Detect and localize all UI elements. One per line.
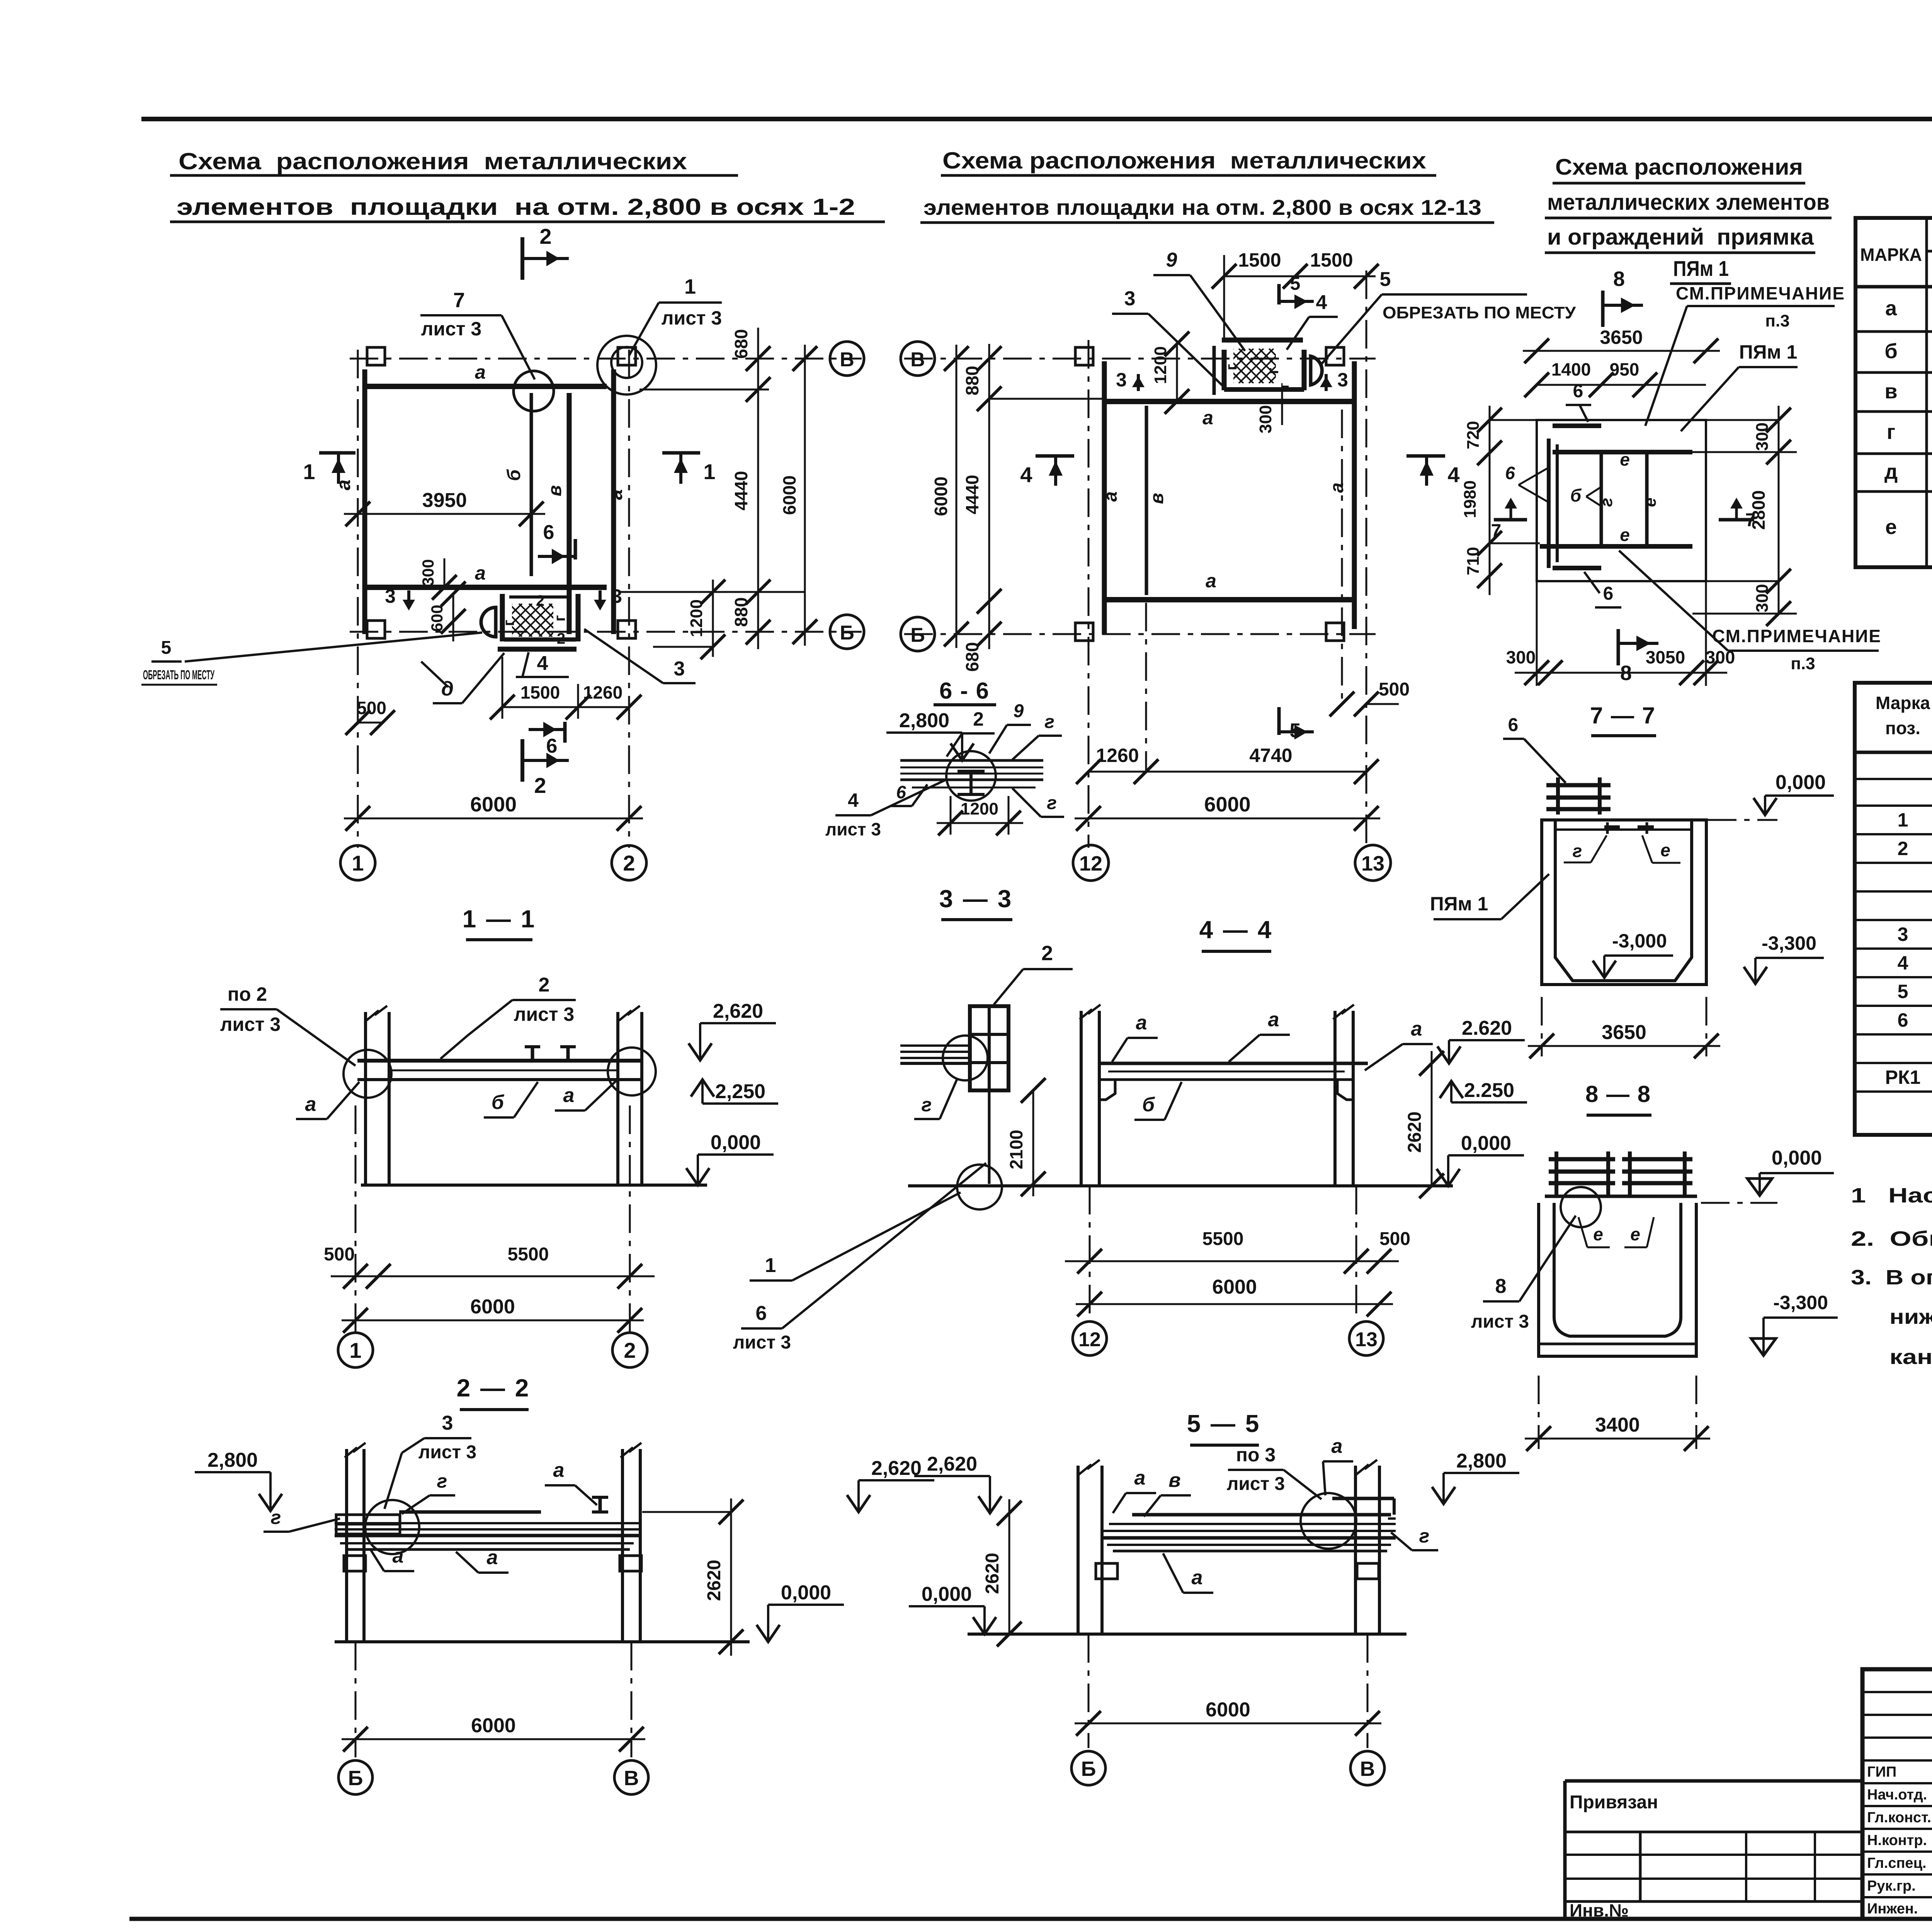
left mini table Привязан xyxy=(1565,1779,1862,1783)
section 6-6: detail circle xyxy=(946,751,996,801)
svg-text:8: 8 xyxy=(1495,1275,1507,1298)
plan axes 1-2: dim 300 xyxy=(444,558,446,587)
section 1-1: axis lines below xyxy=(355,1105,357,1334)
svg-text:г: г xyxy=(500,620,517,626)
svg-text:1: 1 xyxy=(303,459,315,484)
plan axes 1-2: pit walls xyxy=(500,594,505,641)
section 6-6: I-beam symbol in circle xyxy=(957,770,985,773)
svg-text:7 — 7: 7 — 7 xyxy=(1590,702,1656,728)
section 2-2: ground line xyxy=(335,1640,750,1643)
svg-text:2100: 2100 xyxy=(1006,1130,1026,1169)
section 5-5: elevation 0,000 xyxy=(983,1606,986,1634)
section 5-5: elevation 2,620 xyxy=(989,1476,991,1513)
svg-text:9: 9 xyxy=(1014,701,1024,721)
specification table horizontal grid xyxy=(1855,751,1932,754)
plan axes 12-13: left dim chain 880/4440/680 xyxy=(988,344,990,649)
svg-text:6: 6 xyxy=(756,1302,767,1325)
section 2-2: elevation 0,000 xyxy=(767,1605,769,1642)
section 4-4: axis lines xyxy=(1089,1186,1091,1321)
svg-text:1500: 1500 xyxy=(520,682,560,702)
svg-text:г: г xyxy=(1573,841,1582,861)
section 5-5: right raised stub xyxy=(1332,1497,1394,1500)
pit plan: left dim chain 720/1980/710 xyxy=(1489,406,1491,595)
svg-text:е: е xyxy=(1630,1224,1640,1244)
plan axes 1-2: column squares xyxy=(367,347,385,365)
svg-text:300: 300 xyxy=(1256,405,1275,433)
section 2-2: platform layers xyxy=(399,1510,541,1514)
svg-text:3: 3 xyxy=(442,1412,453,1434)
pit plan: right dim chain 300/2800/300 xyxy=(1778,406,1780,614)
section 1-1: elevation 2,620 xyxy=(699,1023,701,1060)
svg-text:Б: Б xyxy=(348,1767,363,1790)
svg-text:1980: 1980 xyxy=(1461,480,1480,518)
svg-text:г: г xyxy=(1265,368,1282,374)
section 7-7: top fitting marks xyxy=(1604,825,1620,828)
svg-text:а: а xyxy=(305,1093,316,1116)
svg-text:13: 13 xyxy=(1361,852,1384,875)
section 5-5: axis circles Б В xyxy=(1071,1751,1105,1785)
section 8-8: left railing xyxy=(1554,1151,1558,1196)
plan axes 1-2: section flag 2 top xyxy=(520,237,524,280)
section 5-5: detail circle xyxy=(1301,1493,1356,1549)
svg-text:Б: Б xyxy=(1081,1757,1096,1781)
plan axes 12-13: platform left beam a xyxy=(1102,361,1107,634)
svg-text:950: 950 xyxy=(1610,359,1639,379)
svg-text:6000: 6000 xyxy=(470,1296,515,1318)
svg-text:канала навозоудаления.: канала навозоудаления. xyxy=(1889,1345,1932,1369)
svg-text:2: 2 xyxy=(534,773,546,798)
svg-text:ГИП: ГИП xyxy=(1867,1764,1896,1780)
section 1-1: platform beam xyxy=(357,1059,642,1063)
svg-text:г: г xyxy=(922,1094,932,1116)
section 4-4: beam xyxy=(1099,1062,1368,1065)
svg-text:г: г xyxy=(271,1507,281,1528)
svg-text:е: е xyxy=(1593,1224,1603,1244)
svg-text:п.3: п.3 xyxy=(1765,311,1789,330)
svg-text:Схема расположения металличес: Схема расположения металлических xyxy=(942,148,1426,173)
plan axes 1-2: dim 600 xyxy=(452,594,454,641)
svg-text:5: 5 xyxy=(1290,274,1301,294)
section 4-4: elevation 2.250 xyxy=(1450,1081,1452,1102)
plan axes 12-13: axis circle В xyxy=(901,342,935,376)
svg-text:6000: 6000 xyxy=(1204,793,1250,816)
svg-text:а: а xyxy=(393,1545,404,1567)
svg-text:2,800: 2,800 xyxy=(1456,1450,1507,1472)
svg-text:по 3: по 3 xyxy=(1236,1444,1276,1466)
svg-text:Н.контр.: Н.контр. xyxy=(1867,1832,1927,1849)
svg-text:элементов площадки на отм. 2: элементов площадки на отм. 2,800 в осях … xyxy=(177,194,855,220)
svg-text:2: 2 xyxy=(539,224,551,248)
svg-text:д: д xyxy=(1884,460,1898,483)
pit plan: section flag 7 left xyxy=(1494,518,1527,522)
svg-text:и ограждений приямка: и ограждений приямка xyxy=(1547,224,1814,250)
pit plan: left double wall xyxy=(1547,439,1551,568)
section 4-4: support brackets xyxy=(1099,1080,1115,1100)
section 1-1: elevation 2,250 xyxy=(701,1080,704,1104)
svg-text:а: а xyxy=(1206,570,1216,592)
svg-text:лист 3: лист 3 xyxy=(1471,1311,1529,1332)
svg-text:3: 3 xyxy=(1116,369,1127,391)
section 2-2: elevation 2,620 right xyxy=(857,1480,860,1512)
plan axes 12-13: axis line Б xyxy=(904,633,1376,635)
svg-text:Марка: Марка xyxy=(1876,693,1930,713)
section 1-1: dims 500 5500 xyxy=(331,1276,655,1277)
plan axes 1-2: section flag 6 mid xyxy=(574,539,577,560)
svg-text:2: 2 xyxy=(557,630,565,647)
svg-text:500: 500 xyxy=(1379,679,1410,700)
plan axes 12-13: bottom dim 6000 xyxy=(1075,818,1380,820)
svg-text:Гл.конст.: Гл.конст. xyxy=(1867,1810,1931,1826)
svg-text:металлических элементов: металлических элементов xyxy=(1547,190,1830,215)
plan axes 1-2: dims 500 1500 1260 xyxy=(358,722,383,724)
svg-text:в: в xyxy=(1884,380,1897,403)
svg-text:лист 3: лист 3 xyxy=(220,1014,281,1035)
svg-text:лист 3: лист 3 xyxy=(1227,1474,1285,1494)
svg-text:2620: 2620 xyxy=(982,1553,1003,1594)
svg-text:Б: Б xyxy=(910,624,925,646)
section 4-4: dim 6000 xyxy=(1076,1303,1393,1305)
svg-text:8 — 8: 8 — 8 xyxy=(1585,1081,1651,1107)
svg-text:1260: 1260 xyxy=(1096,745,1139,766)
section 2-2: I-beam on beam xyxy=(592,1496,608,1499)
svg-text:6000: 6000 xyxy=(1212,1276,1257,1298)
pit plan: section flag 8 bottom xyxy=(1617,629,1620,665)
section 1-1: dim 6000 xyxy=(342,1320,644,1321)
svg-text:300: 300 xyxy=(419,559,437,586)
plan axes 12-13: axis circle 12 xyxy=(1073,845,1109,881)
svg-text:поз.: поз. xyxy=(1885,718,1920,738)
svg-text:6000: 6000 xyxy=(779,475,799,515)
section 4-4: elevation 2.620 xyxy=(1448,1040,1450,1063)
svg-text:В: В xyxy=(624,1767,639,1790)
pit plan: dims 1400 950 xyxy=(1537,384,1706,386)
section 2-2: axis lines xyxy=(355,1642,357,1757)
svg-text:1: 1 xyxy=(349,1338,361,1362)
svg-text:б: б xyxy=(1884,340,1897,363)
plan axes 1-2: dim 3950 xyxy=(344,513,545,515)
svg-text:880: 880 xyxy=(731,597,751,627)
svg-text:г: г xyxy=(1223,364,1240,371)
svg-text:2,620: 2,620 xyxy=(713,1000,763,1022)
svg-text:3400: 3400 xyxy=(1595,1414,1640,1436)
svg-text:лист 3: лист 3 xyxy=(514,1003,575,1025)
svg-text:1200: 1200 xyxy=(961,799,998,818)
svg-text:г: г xyxy=(1887,420,1896,444)
svg-text:2620: 2620 xyxy=(1405,1112,1425,1153)
svg-text:п.3: п.3 xyxy=(1791,654,1815,673)
svg-text:680: 680 xyxy=(731,329,751,359)
plan axes 1-2: axis line В xyxy=(350,358,862,360)
svg-text:Схема расположения металличе: Схема расположения металлических xyxy=(179,148,687,174)
vedomost table horizontal grid xyxy=(1927,250,1932,253)
svg-text:Инв.№: Инв.№ xyxy=(1570,1900,1629,1920)
section 4-4: ground line xyxy=(908,1184,1453,1187)
svg-text:б: б xyxy=(1142,1094,1155,1116)
svg-text:ПЯм 1: ПЯм 1 xyxy=(1739,341,1798,363)
svg-text:2: 2 xyxy=(624,1338,636,1362)
plan axes 1-2: platform bottom beam a xyxy=(366,585,607,590)
svg-text:5: 5 xyxy=(1898,981,1908,1002)
svg-text:е: е xyxy=(1885,515,1897,539)
svg-text:5 — 5: 5 — 5 xyxy=(1187,1410,1261,1437)
svg-text:а: а xyxy=(333,480,354,490)
section 5-5: corbel squares xyxy=(1096,1563,1117,1579)
section 2-2: dim 2620 xyxy=(730,1498,732,1656)
svg-text:9: 9 xyxy=(1166,249,1177,271)
svg-text:0,000: 0,000 xyxy=(711,1131,761,1154)
section 1-1: axis circles 1 2 xyxy=(338,1333,373,1367)
section 3-3: detail circle upper xyxy=(943,1036,988,1080)
svg-text:2: 2 xyxy=(539,974,550,996)
svg-text:1500: 1500 xyxy=(1310,249,1353,271)
section 8-8: right railing xyxy=(1628,1151,1632,1196)
pit plan: bottom dims 300 3050 300 xyxy=(1515,672,1727,674)
plan axes 1-2: right beam a xyxy=(611,369,616,634)
svg-text:г: г xyxy=(1276,383,1292,389)
section 2-2: corbel squares xyxy=(344,1556,366,1571)
section 5-5: dim 2620 xyxy=(1009,1499,1010,1634)
svg-text:СМ.ПРИМЕЧАНИЕ: СМ.ПРИМЕЧАНИЕ xyxy=(1676,283,1845,303)
svg-text:а: а xyxy=(487,1546,498,1569)
svg-text:е: е xyxy=(1641,498,1660,507)
plan axes 12-13: axis line В xyxy=(904,358,1376,360)
section 4-4: dim 2620 xyxy=(1431,1051,1433,1186)
plan axes 1-2: axis circle 2 xyxy=(612,845,646,880)
svg-text:7: 7 xyxy=(1491,521,1502,541)
svg-text:элементов площадки на отм. 2,8: элементов площадки на отм. 2,800 в осях … xyxy=(923,195,1481,219)
svg-text:2: 2 xyxy=(536,592,544,609)
section 3-3: beam stub lines xyxy=(900,1044,970,1047)
svg-text:В: В xyxy=(840,349,854,371)
svg-text:а: а xyxy=(1192,1566,1203,1589)
pit plan: element 6 top thick bar xyxy=(1553,423,1601,428)
plan axes 12-13: bottom dims 1260 4740 xyxy=(1088,771,1366,773)
plan axes 1-2: axis circle Б xyxy=(830,615,864,649)
plan axes 12-13: section flag 5 bottom xyxy=(1277,707,1281,735)
plan axes 1-2: right dim 6000 xyxy=(804,345,806,646)
plan axes 12-13: section flag 5 top xyxy=(1277,284,1281,304)
svg-text:г: г xyxy=(1419,1525,1430,1547)
section 4-4: elevation 0,000 xyxy=(1447,1155,1449,1186)
svg-text:1200: 1200 xyxy=(687,599,706,637)
svg-text:3050: 3050 xyxy=(1646,647,1685,667)
svg-text:3: 3 xyxy=(1124,287,1136,310)
svg-text:б: б xyxy=(492,1091,505,1114)
svg-text:3 — 3: 3 — 3 xyxy=(939,885,1013,913)
svg-text:4: 4 xyxy=(1316,291,1327,314)
svg-text:500: 500 xyxy=(324,1244,355,1265)
section 2-2: detail circle xyxy=(365,1500,419,1554)
svg-text:0,000: 0,000 xyxy=(1461,1132,1511,1155)
svg-text:1: 1 xyxy=(352,851,364,875)
svg-text:4: 4 xyxy=(1020,463,1032,487)
plan axes 1-2: section flag 2 bottom xyxy=(520,739,524,782)
svg-text:6000: 6000 xyxy=(1206,1699,1250,1721)
svg-text:12: 12 xyxy=(1079,852,1102,875)
svg-text:6: 6 xyxy=(546,735,558,757)
plan axes 1-2: platform left edge beam a xyxy=(362,369,367,634)
svg-text:2. Общие указания даны н: 2. Общие указания даны на листе 1. xyxy=(1851,1227,1932,1250)
svg-text:6: 6 xyxy=(1898,1009,1908,1031)
svg-text:8: 8 xyxy=(1613,267,1625,291)
pit plan: bottom beam xyxy=(1540,544,1692,549)
plan axes 1-2: axis line Б xyxy=(350,631,862,633)
pit plan: inner verticals xyxy=(1600,454,1603,546)
svg-text:г: г xyxy=(551,615,568,622)
svg-text:2620: 2620 xyxy=(704,1560,724,1601)
svg-text:0,000: 0,000 xyxy=(1776,771,1826,794)
svg-text:6: 6 xyxy=(1505,463,1515,483)
section 2-2: left sandwich block xyxy=(336,1515,400,1534)
plan axes 1-2: pit door arc xyxy=(481,607,496,637)
svg-text:3650: 3650 xyxy=(1600,327,1643,348)
section 2-2: columns xyxy=(345,1449,348,1642)
section 1-1: detail circles xyxy=(344,1050,391,1098)
svg-text:Б: Б xyxy=(840,622,854,644)
svg-text:а: а xyxy=(1202,407,1213,429)
svg-text:2: 2 xyxy=(1041,942,1053,965)
svg-text:1: 1 xyxy=(684,275,696,298)
svg-text:В: В xyxy=(910,349,925,371)
section 7-7: railing xyxy=(1556,777,1560,815)
svg-text:4440: 4440 xyxy=(731,471,751,510)
svg-text:2,620: 2,620 xyxy=(871,1457,922,1480)
svg-text:3: 3 xyxy=(1898,923,1908,945)
svg-text:СМ.ПРИМЕЧАНИЕ: СМ.ПРИМЕЧАНИЕ xyxy=(1712,626,1881,646)
svg-text:13: 13 xyxy=(1355,1328,1378,1351)
svg-text:лист 3: лист 3 xyxy=(825,819,881,839)
svg-text:4740: 4740 xyxy=(1249,745,1292,766)
section 5-5: platform stack xyxy=(1132,1513,1391,1517)
section 5-5: columns xyxy=(1077,1466,1080,1634)
section 4-4: axis circles 12 13 xyxy=(1073,1321,1107,1355)
svg-text:лист 3: лист 3 xyxy=(421,318,482,340)
svg-text:5: 5 xyxy=(161,638,172,658)
svg-text:Схема расположения: Схема расположения xyxy=(1555,155,1803,180)
section 2-2: dim 6000 xyxy=(342,1738,645,1740)
svg-text:4: 4 xyxy=(1447,463,1459,487)
plan axes 12-13: inner beam в xyxy=(1145,406,1148,595)
svg-text:0,000: 0,000 xyxy=(1772,1147,1822,1169)
svg-text:12: 12 xyxy=(1078,1328,1101,1351)
plan axes 1-2: platform top beam a xyxy=(366,384,607,389)
section 4-4: dims 5500 500 xyxy=(1065,1260,1399,1262)
svg-text:а: а xyxy=(1134,1467,1146,1489)
svg-text:2.250: 2.250 xyxy=(1464,1079,1514,1102)
plan axes 1-2: bottom dim 6000 xyxy=(344,818,643,820)
svg-text:3650: 3650 xyxy=(1602,1021,1646,1044)
svg-text:е: е xyxy=(1620,449,1630,469)
section 6-6: dim 1200 xyxy=(937,822,1023,824)
svg-text:ПЯм 1: ПЯм 1 xyxy=(1673,256,1729,281)
svg-text:1260: 1260 xyxy=(583,682,622,702)
svg-text:е: е xyxy=(1660,840,1670,860)
svg-text:2.620: 2.620 xyxy=(1462,1017,1512,1039)
svg-text:6: 6 xyxy=(1603,583,1614,604)
section 5-5: ground line xyxy=(968,1633,1406,1636)
plan axes 1-2: axis circle 1 xyxy=(340,845,375,880)
svg-text:5: 5 xyxy=(1290,719,1301,742)
svg-text:а: а xyxy=(1136,1012,1147,1034)
svg-text:е: е xyxy=(1620,525,1630,545)
svg-text:1500: 1500 xyxy=(1238,249,1281,271)
svg-text:300: 300 xyxy=(1506,647,1536,667)
svg-text:6: 6 xyxy=(543,521,554,544)
svg-text:1: 1 xyxy=(765,1254,776,1277)
svg-text:2,620: 2,620 xyxy=(927,1453,977,1475)
specification table outline xyxy=(1855,683,1932,1135)
svg-text:а: а xyxy=(475,361,486,383)
svg-text:300: 300 xyxy=(1753,422,1772,451)
plan axes 12-13: platform bottom beam a xyxy=(1106,597,1354,602)
svg-text:3950: 3950 xyxy=(422,489,467,512)
section 5-5: elevation 2,800 right xyxy=(1442,1473,1445,1504)
svg-text:880: 880 xyxy=(962,366,982,396)
plan axes 12-13: section flag 4 right xyxy=(1406,454,1445,458)
svg-text:нижнюю горизонтальную полосу: нижнюю горизонтальную полосу в местах пр… xyxy=(1889,1305,1932,1328)
svg-text:Инжен.: Инжен. xyxy=(1867,1901,1918,1917)
svg-text:2,800: 2,800 xyxy=(207,1449,258,1471)
svg-text:в: в xyxy=(1168,1469,1180,1492)
svg-text:6: 6 xyxy=(1508,715,1519,735)
svg-text:500: 500 xyxy=(1379,1229,1410,1249)
svg-text:1: 1 xyxy=(703,459,715,484)
plan axes 12-13: dims 1500 1500 xyxy=(1224,276,1376,277)
svg-text:а: а xyxy=(563,1084,575,1107)
svg-text:в: в xyxy=(1147,493,1167,504)
section 7-7: dim 3650 xyxy=(1528,1045,1720,1047)
sheet frame top border xyxy=(141,117,1932,121)
svg-text:2: 2 xyxy=(623,851,635,875)
svg-text:0,000: 0,000 xyxy=(781,1582,831,1604)
plan axes 1-2: axis circle В xyxy=(830,342,864,376)
plan axes 12-13: axis line 12 xyxy=(1088,340,1090,848)
svg-text:а: а xyxy=(1327,483,1347,493)
svg-text:2: 2 xyxy=(1898,838,1908,859)
title block signature rows xyxy=(1862,1691,1932,1693)
title block outline xyxy=(1862,1669,1932,1919)
svg-text:1 — 1: 1 — 1 xyxy=(463,905,536,933)
svg-text:2,800: 2,800 xyxy=(899,709,949,732)
svg-text:-3,300: -3,300 xyxy=(1773,1292,1828,1313)
svg-text:0,000: 0,000 xyxy=(922,1583,972,1605)
svg-text:лист 3: лист 3 xyxy=(733,1332,791,1353)
svg-text:4: 4 xyxy=(848,789,859,811)
section 4-4: columns xyxy=(1080,1011,1083,1186)
svg-text:2 — 2: 2 — 2 xyxy=(457,1374,531,1402)
sheet frame bottom border xyxy=(129,1917,1932,1921)
svg-text:3. В ограждениях поз. 6 при: 3. В ограждениях поз. 6 приямка ПЯм1 выр… xyxy=(1851,1266,1932,1289)
section 3-3: ladder stile xyxy=(988,1090,991,1184)
svg-text:б: б xyxy=(504,469,524,481)
svg-text:а: а xyxy=(1268,1009,1279,1031)
svg-text:Нач.отд.: Нач.отд. xyxy=(1867,1787,1927,1803)
section 7-7: pit walls section xyxy=(1542,820,1706,985)
section 6-6: beam lines xyxy=(900,759,1043,762)
svg-text:7: 7 xyxy=(453,289,465,312)
svg-text:по 2: по 2 xyxy=(228,983,267,1005)
svg-text:6000: 6000 xyxy=(931,476,951,516)
svg-text:720: 720 xyxy=(1464,421,1483,449)
svg-text:а: а xyxy=(475,562,486,584)
pit plan: top beam xyxy=(1553,450,1692,454)
svg-text:ОБРЕЗАТЬ ПО МЕСТУ: ОБРЕЗАТЬ ПО МЕСТУ xyxy=(1383,303,1576,322)
svg-text:3: 3 xyxy=(1337,369,1348,391)
svg-text:ОБРЕЗАТЬ ПО МЕСТУ: ОБРЕЗАТЬ ПО МЕСТУ xyxy=(143,668,214,682)
plan axes 12-13: pit walls xyxy=(1222,338,1303,343)
section 3-3: dim 2100 xyxy=(1032,1090,1034,1196)
section 5-5: dim 6000 xyxy=(1075,1723,1381,1725)
